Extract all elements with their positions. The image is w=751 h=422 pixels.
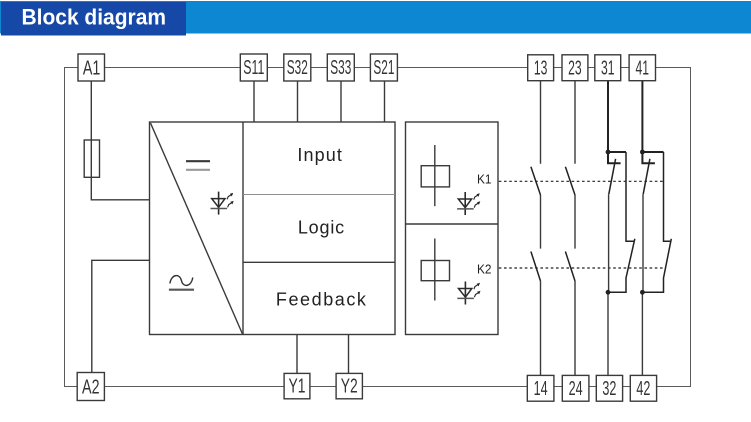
svg-text:A2: A2 bbox=[82, 377, 100, 399]
svg-text:K1: K1 bbox=[477, 173, 492, 187]
svg-text:Y1: Y1 bbox=[289, 376, 306, 398]
svg-text:Block diagram: Block diagram bbox=[22, 4, 167, 29]
svg-text:42: 42 bbox=[636, 378, 650, 400]
svg-text:K2: K2 bbox=[477, 263, 492, 277]
svg-text:13: 13 bbox=[534, 58, 548, 80]
svg-text:Y2: Y2 bbox=[341, 376, 358, 398]
svg-text:31: 31 bbox=[601, 58, 615, 80]
svg-text:14: 14 bbox=[534, 378, 548, 400]
svg-text:S32: S32 bbox=[287, 57, 308, 79]
svg-text:32: 32 bbox=[602, 378, 616, 400]
svg-text:A1: A1 bbox=[83, 58, 101, 80]
svg-text:Feedback: Feedback bbox=[276, 289, 367, 309]
svg-text:Logic: Logic bbox=[298, 217, 344, 237]
svg-text:Input: Input bbox=[297, 145, 342, 165]
svg-text:S21: S21 bbox=[373, 57, 394, 79]
svg-text:S33: S33 bbox=[330, 57, 351, 79]
svg-text:41: 41 bbox=[636, 58, 650, 80]
svg-text:23: 23 bbox=[568, 58, 582, 80]
svg-text:S11: S11 bbox=[243, 57, 264, 79]
svg-text:24: 24 bbox=[569, 378, 583, 400]
